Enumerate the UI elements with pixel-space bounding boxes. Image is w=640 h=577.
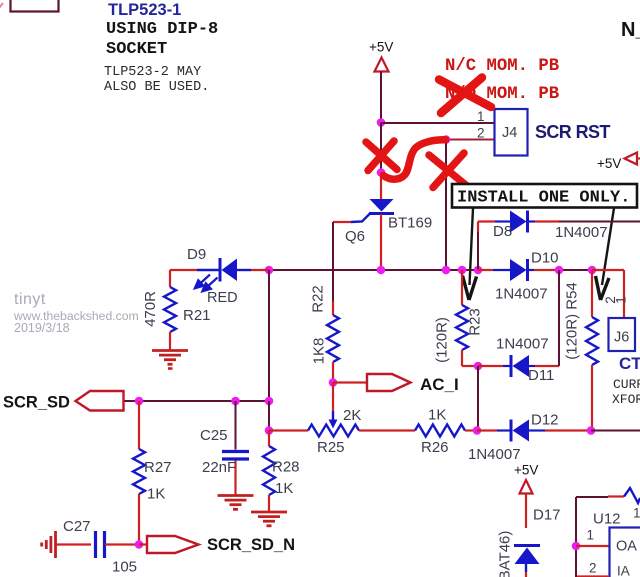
resistor R54: [591, 270, 593, 317]
junction dot R25/R28: [265, 426, 274, 435]
wire to R25: [269, 429, 308, 431]
junction dot bus/Q6: [377, 266, 386, 275]
svg-text:D17: D17: [533, 507, 561, 524]
svg-text:+5V: +5V: [369, 40, 393, 55]
svg-text:D10: D10: [531, 250, 559, 267]
op-amp U12 box: [610, 528, 640, 577]
svg-text:R27: R27: [144, 459, 172, 476]
wire R26 to D12: [465, 429, 477, 431]
arrow A to R23: [463, 208, 477, 300]
resistor R26: [415, 425, 465, 437]
LED D9: [197, 269, 219, 271]
diode D11: [478, 365, 503, 367]
LED D9 wire anode corner: [170, 269, 197, 271]
wire node down to squiggle node: [380, 123, 382, 173]
wire pin2 node down to bus: [445, 140, 447, 270]
svg-text:tinyt: tinyt: [14, 291, 46, 308]
wire Q6 cathode to bus: [380, 214, 382, 270]
diode D8: [478, 220, 495, 222]
svg-text:BT169: BT169: [388, 215, 432, 232]
svg-text:TLP523-2 MAY: TLP523-2 MAY: [104, 65, 201, 80]
wire +5V down to pin1 node: [380, 72, 382, 123]
svg-text:TLP523-1: TLP523-1: [108, 1, 181, 19]
svg-text:R28: R28: [272, 459, 300, 476]
wire U12 pin 2: [577, 575, 609, 577]
svg-text:R25: R25: [317, 439, 345, 456]
wire AC_I node to R25 wiper: [332, 383, 334, 412]
svg-text:XFORMER: XFORMER: [612, 392, 640, 407]
wire J4 pin 2: [446, 139, 494, 141]
svg-text:CT: CT: [619, 354, 640, 373]
svg-text:D9: D9: [187, 246, 206, 263]
junction dot bus/D9: [265, 266, 274, 275]
junction dot U12 pin1: [572, 542, 581, 551]
wire +5V to D17: [525, 494, 527, 529]
svg-text:SCR_SD: SCR_SD: [3, 394, 70, 412]
svg-text:470R: 470R: [142, 291, 159, 327]
resistor R21: [169, 270, 171, 287]
svg-text:1K: 1K: [428, 407, 446, 424]
junction dot D12/R54: [587, 426, 596, 435]
resistor R23: [461, 270, 463, 305]
power +5V triangle (top): [375, 58, 389, 72]
junction dot bridge mid-left: [474, 362, 483, 371]
junction dot bus/J4pin2: [442, 266, 451, 275]
svg-text:D8: D8: [493, 223, 512, 240]
svg-text:AC_I: AC_I: [420, 375, 459, 394]
wire SCR_SD row: [124, 400, 269, 402]
wire R23 bottom corner: [462, 365, 478, 367]
svg-text:C25: C25: [200, 427, 228, 444]
svg-text:2K: 2K: [343, 407, 361, 424]
wire row to right edge: [591, 430, 640, 432]
red X over pin2 wire: [429, 153, 467, 188]
connector J4: [495, 109, 528, 156]
junction dot pin1 node: [377, 118, 386, 127]
svg-text:1: 1: [633, 506, 640, 521]
diode D17: [514, 544, 540, 547]
junction dot SCR_SD_N: [135, 540, 144, 549]
svg-text:1: 1: [477, 109, 485, 124]
junction dot bus/R23: [458, 266, 467, 275]
connector J6: [609, 318, 636, 351]
svg-text:(BAT46): (BAT46): [497, 531, 514, 577]
svg-text:105: 105: [112, 559, 137, 576]
svg-text:1N4007: 1N4007: [495, 286, 548, 303]
red X over N/O: [439, 78, 491, 114]
junction dot SCR_SD/C25: [231, 397, 240, 406]
svg-text:SCR_SD_N: SCR_SD_N: [207, 536, 295, 554]
LED D9 emission arrows: [195, 275, 218, 292]
svg-text:1N4007: 1N4007: [468, 446, 521, 463]
diode D10 (inline on bus): [478, 269, 493, 271]
junction dot SCR_SD corner: [265, 397, 274, 406]
junction dot SCR_SD/R27: [135, 397, 144, 406]
junction dot R26/D12: [473, 426, 482, 435]
svg-text:N/C MOM. PB: N/C MOM. PB: [445, 57, 559, 76]
svg-text:J4: J4: [502, 125, 517, 141]
junction dot AC_I: [329, 378, 338, 387]
R25 wiper arrow: [332, 411, 334, 422]
wire Q6 gate: [333, 221, 351, 223]
svg-text:R21: R21: [183, 307, 211, 324]
wire bridge mid vertical: [477, 366, 479, 431]
ground under C25: [218, 494, 254, 497]
svg-text:U12: U12: [593, 511, 621, 528]
svg-text:1K8: 1K8: [311, 338, 328, 365]
stray mark top-left edge: [0, 3, 3, 8]
resistor R22 chain from gate: [332, 222, 334, 301]
svg-text:+5V: +5V: [514, 463, 538, 478]
svg-text:R22: R22: [310, 285, 327, 313]
svg-text:22nF: 22nF: [202, 459, 236, 476]
wire D8 left lead down to bus: [477, 222, 479, 233]
svg-text:D11: D11: [528, 367, 554, 384]
main bus wire: [269, 269, 478, 271]
svg-text:D12: D12: [531, 412, 559, 429]
svg-text:2019/3/18: 2019/3/18: [14, 321, 70, 335]
port AC_I: [367, 374, 411, 391]
junction dot bus/D8: [474, 266, 483, 275]
svg-text:(120R): (120R): [434, 317, 451, 363]
svg-text:1K: 1K: [275, 480, 293, 497]
wire U12 pin 1: [576, 545, 609, 547]
svg-text:OA: OA: [616, 539, 637, 555]
svg-text:R26: R26: [421, 439, 449, 456]
resistor R27: [138, 401, 140, 449]
svg-text:1: 1: [614, 296, 629, 304]
red X over +5V wire: [366, 141, 397, 171]
wire bus D10 to R54 node: [559, 269, 592, 271]
power +5V triangle (bottom): [520, 480, 533, 494]
svg-text:SOCKET: SOCKET: [106, 40, 167, 59]
wire to AC_I port: [333, 381, 367, 383]
wire bus to J6 pin 1: [592, 269, 624, 271]
svg-text:SCR RST: SCR RST: [535, 122, 610, 142]
svg-text:2: 2: [589, 561, 597, 576]
ground left of C27: [54, 531, 57, 558]
port SCR_SD: [76, 391, 124, 411]
wire J4 pin 1: [381, 122, 494, 124]
svg-text:C27: C27: [63, 518, 91, 535]
wire down to Q6 anode: [380, 173, 382, 200]
potentiometer R25: [308, 425, 359, 437]
svg-text:J6: J6: [614, 330, 629, 346]
INSTALL ONE ONLY box: [452, 184, 637, 208]
port SCR_SD_N: [147, 536, 199, 553]
capacitor C27: [94, 531, 97, 558]
arrow B to R54: [596, 208, 615, 300]
svg-text:1K: 1K: [147, 486, 165, 503]
svg-text:ALSO BE USED.: ALSO BE USED.: [104, 80, 209, 95]
thyristor Q6 BT169: [370, 199, 394, 212]
capacitor C25: [235, 401, 237, 450]
wire D11 anode up to bus: [558, 270, 560, 366]
svg-text:USING DIP-8: USING DIP-8: [106, 20, 218, 39]
wire R25 to R26: [359, 429, 415, 431]
ground under R21: [152, 349, 188, 352]
svg-text:INSTALL ONE ONLY.: INSTALL ONE ONLY.: [457, 189, 630, 208]
svg-text:RED: RED: [207, 290, 238, 306]
wire to SCR_SD_N port: [139, 543, 147, 545]
wire D8 to right edge: [559, 221, 640, 223]
red squiggle jumper: [384, 140, 446, 179]
wire U12 net corner: [576, 496, 608, 498]
diode D12: [477, 429, 497, 431]
svg-text:2: 2: [477, 126, 485, 141]
wire down to R25 row: [268, 401, 270, 431]
junction dot squiggle right: [442, 135, 451, 144]
junction dot bus/R54: [588, 266, 597, 275]
top-left box (partial rectangle): [11, 0, 59, 12]
svg-text:R23: R23: [467, 308, 484, 336]
svg-text:N_: N_: [621, 19, 640, 41]
vertical net SCR_SD column: [268, 270, 270, 401]
resistor stub right edge: [608, 495, 624, 497]
wire ground to C27: [56, 543, 91, 545]
power +5V left triangle (right edge): [625, 153, 638, 165]
svg-text:IA: IA: [617, 564, 630, 577]
junction dot bus/D11: [555, 266, 564, 275]
junction dot squiggle left: [377, 168, 386, 177]
svg-text:1: 1: [587, 528, 595, 543]
resistor R28: [268, 431, 270, 447]
svg-text:(120R) R54: (120R) R54: [564, 282, 581, 360]
svg-text:Q6: Q6: [345, 228, 365, 245]
ground under R28: [251, 511, 287, 514]
svg-text:1N4007: 1N4007: [555, 224, 608, 241]
svg-text:1N4007: 1N4007: [496, 336, 549, 353]
svg-text:CURRENT: CURRENT: [613, 377, 640, 392]
svg-text:+5V: +5V: [597, 156, 621, 171]
